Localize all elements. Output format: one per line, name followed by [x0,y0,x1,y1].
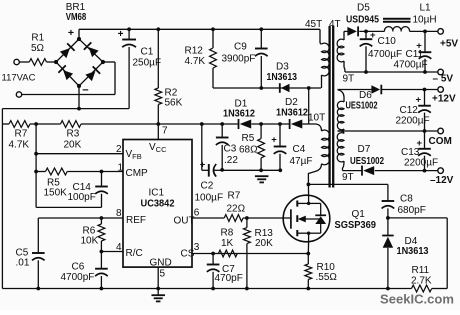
svg-text:1N3613: 1N3613 [267,72,298,83]
label C11 plus [416,41,422,52]
label 9T a [343,73,355,84]
node Q1 source stub [307,232,310,235]
label D2 [285,97,298,108]
svg-text:R/C: R/C [126,248,143,259]
label C12 value [396,116,430,127]
svg-text:117VAC: 117VAC [2,73,36,84]
label C14 value [68,192,96,203]
winding 9T b [337,131,344,171]
label D1 [235,98,248,109]
svg-text:1N3612: 1N3612 [223,109,255,120]
node bottom C6 [100,287,104,291]
label pin6 [194,208,200,219]
label C3 [224,143,237,154]
label IC1 [149,187,165,198]
label pin8 [116,208,122,219]
svg-text:100pF: 100pF [68,192,96,203]
svg-text:56K: 56K [165,98,183,109]
svg-text:1K: 1K [221,238,234,249]
terminal +5V [438,29,444,35]
node drain [307,183,311,187]
wire bridge top to rail [78,29,80,39]
svg-text:C12: C12 [400,105,419,116]
bridge diode top-left [60,43,75,58]
resistor R6 [98,218,105,252]
label R6 [83,225,96,236]
svg-text:2200µF: 2200µF [396,116,430,127]
svg-text:.55Ω: .55Ω [316,272,338,283]
label D4 part [397,246,429,257]
label 45T [305,19,322,30]
svg-text:4.7K: 4.7K [185,56,206,67]
wire comp vertical [35,124,37,207]
terminal -12V [438,168,444,174]
node CS C7 [211,252,215,256]
wire 117VAC return [22,62,115,95]
label CS [181,249,195,260]
svg-text:10T: 10T [308,113,325,124]
wire comp bottom [36,206,101,208]
wire -5V rail [345,71,437,73]
label D6 [359,90,372,101]
label R8 value [221,238,234,249]
svg-text:5Ω: 5Ω [31,43,45,54]
resistor R10 [305,254,312,289]
svg-text:L1: L1 [420,2,432,13]
resistor R12 [210,29,217,88]
svg-text:D3: D3 [276,62,289,73]
svg-text:R11: R11 [412,265,430,276]
diode D3 [280,83,290,93]
node C1 top [127,27,131,31]
label RC [126,248,143,259]
node C9 bottom [259,86,263,90]
label R2 value [165,98,183,109]
node C9 top [259,27,263,31]
capacitor C4 [274,124,287,170]
svg-text:SeekIC.com: SeekIC.com [380,291,454,306]
wire pin2 line [36,153,123,155]
svg-text:470pF: 470pF [215,273,243,284]
node bottom R13 [245,287,249,291]
capacitor C5 [32,253,45,289]
label 9T b [342,172,354,183]
wire top DC rail [79,28,320,30]
node pin2 tap [34,152,38,156]
svg-text:9T: 9T [342,172,354,183]
label C13 [401,147,420,158]
label 4T [329,19,341,30]
wire rail A segment 3 [251,123,289,125]
node rail A R2 [156,122,160,126]
node gnd2 R5 [259,168,263,172]
svg-text:20K: 20K [255,238,273,249]
node C3 bottom [220,168,224,172]
label R13 value [255,238,273,249]
diode D6 [371,85,381,95]
svg-text:.01: .01 [16,258,30,269]
label R13 [255,228,274,239]
wire R1 to bridge [47,61,57,63]
label C10 [378,36,397,47]
label C9 value [222,54,256,65]
label C12 plus [416,95,422,106]
capacitor C10 [360,31,373,72]
resistor R11 [412,285,432,292]
svg-text:R5: R5 [242,133,255,144]
node bottom gnd [156,287,160,291]
label C13 value [404,158,438,169]
wire CS line [192,253,309,255]
resistor R13 [244,218,251,289]
svg-text:150K: 150K [44,188,68,199]
capacitor C6 [95,252,108,289]
svg-text:Q1: Q1 [352,209,366,220]
node snubber [386,216,390,220]
node COM C12 [423,129,427,133]
terminal COM [438,128,444,134]
node bridge neutral [77,107,81,111]
label C5 [16,247,29,258]
label 117VAC [2,73,36,84]
label Q1 part [335,220,377,231]
wire 117VAC live lead [19,61,29,63]
label R7 gate value [227,203,246,214]
label pin5 [160,268,166,279]
svg-text:8: 8 [116,208,122,219]
bridge diode bottom-left [58,65,73,80]
label +12V [432,94,456,105]
label C13 plus [417,138,423,149]
label R12 value [185,56,206,67]
svg-text:OUT: OUT [174,216,195,227]
svg-text:3900pF: 3900pF [222,54,256,65]
node C13 bottom [423,169,427,173]
capacitor C12 [418,90,431,132]
wire bottom rail [2,288,447,290]
label pin3 [194,242,200,253]
svg-text:22Ω: 22Ω [227,203,246,214]
label bridge minus [82,85,88,97]
svg-text:9T: 9T [343,73,355,84]
label D5 [357,3,370,14]
capacitor C14 [95,172,108,208]
wire C5 drop [37,218,39,253]
terminal -5V [438,69,444,75]
node C11 top [423,30,427,34]
resistor R2 [155,29,162,124]
wire bridge bottom lead [78,86,80,109]
svg-text:20K: 20K [64,139,82,150]
label D1 part [223,109,255,120]
node bridge top [77,37,81,41]
svg-text:+: + [200,160,206,171]
label C4 value [290,156,313,167]
label R10 value [316,272,338,283]
wire pin1 line [36,171,123,173]
label Q1 [352,209,366,220]
node C10 top [364,30,368,34]
wire neutral rail [2,108,129,110]
label pin7 [162,126,168,137]
node gnd2 C4 [278,168,282,172]
svg-text:C2: C2 [201,180,214,191]
label C4 [293,144,306,155]
label R2 [165,87,178,98]
svg-text:680pF: 680pF [398,205,426,216]
svg-text:UES1002: UES1002 [350,156,384,167]
svg-text:68Ω: 68Ω [239,145,258,156]
terminal 117VAC top [14,59,19,64]
node bridge bottom [77,84,81,88]
svg-text:R13: R13 [255,228,274,239]
capacitor C7 [207,254,220,289]
svg-text:C9: C9 [234,41,247,52]
label C2 [201,180,214,191]
label R7 gate [228,190,241,201]
svg-text:UES1002: UES1002 [346,101,378,112]
wire OUT line [192,217,292,219]
svg-text:C1: C1 [141,46,154,57]
svg-text:GND: GND [150,257,172,268]
node source CS [306,252,310,256]
label pin1 [118,162,124,173]
svg-text:REF: REF [126,215,146,226]
svg-text:+: + [370,30,376,41]
svg-text:IC1: IC1 [149,187,165,198]
node pin1 tap [34,170,38,174]
label VM68 [66,12,87,23]
svg-text:R1: R1 [31,32,44,43]
svg-text:.22: .22 [224,155,238,166]
svg-text:+: + [68,27,74,39]
label -5V [433,73,454,84]
svg-text:5: 5 [160,268,166,279]
label C7 [222,264,235,275]
label R8 [221,228,234,239]
inductor L1 [383,19,411,32]
wire snubber loop [388,218,447,289]
winding 45T [320,29,329,88]
capacitor C11 [419,31,432,72]
label BR1 [66,2,86,13]
svg-text:45T: 45T [305,19,322,30]
label UC3842 [141,198,175,209]
label REF [126,215,146,226]
wire REF line [38,217,123,219]
svg-text:−: − [82,85,88,97]
svg-text:2200µF: 2200µF [404,158,438,169]
node bottom C7 [211,287,215,291]
label D5 part [346,14,379,25]
svg-text:6: 6 [194,208,200,219]
label OUT [174,216,195,227]
label Vcc [149,142,167,154]
label C8 [400,193,413,204]
node bottom R10 [306,287,310,291]
node Q1 drain stub [307,202,310,205]
svg-text:+: + [118,29,124,40]
label C12 [400,105,419,116]
svg-text:4: 4 [116,242,122,253]
wire 12V rail [338,89,438,91]
wire RC line [101,251,123,253]
wire VCC aux rail [213,87,321,89]
capacitor C1 [122,29,136,108]
node R12 top [211,27,215,31]
svg-text:USD945: USD945 [346,14,379,25]
label COM [429,136,452,147]
label C7 value [215,273,243,284]
svg-text:C13: C13 [401,147,420,158]
diode D4 [382,218,394,289]
label C9 [234,41,247,52]
ground main [151,289,165,302]
svg-text:+5V: +5V [440,39,458,50]
wire snubber drop [387,184,389,200]
wire decouple rail [202,124,222,170]
node C12 top [423,88,427,92]
svg-text:C8: C8 [400,193,413,204]
label pin2 [116,144,122,155]
svg-text:4.7K: 4.7K [9,139,30,150]
node C14 top [100,170,104,174]
watermark SeekIC.com [380,291,454,306]
wire drain rail [308,183,388,185]
label D6 part [346,101,378,112]
label C4 plus [271,135,277,146]
resistor R7 [2,121,30,151]
node R2 top [156,27,160,31]
wire rail A segment 4 [302,123,308,125]
wire rail A segment 1 [30,123,61,125]
svg-text:VM68: VM68 [66,12,87,23]
node C10 bottom [364,70,368,74]
label R10 [317,262,336,273]
node bottom C5 [36,287,40,291]
Q1 substrate arrow [298,216,321,223]
transistor Q1 circle [283,195,330,242]
svg-text:4700pF: 4700pF [61,272,95,283]
svg-text:4700µF: 4700µF [394,59,428,70]
label R11 value [411,275,432,286]
wire 5V rail [344,30,437,32]
label +5V [440,39,458,50]
label R5 68 value [239,145,258,156]
capacitor C2 [209,164,216,177]
winding 10T [308,124,329,184]
Q1 channel segments [296,201,298,237]
label CMP [126,168,149,179]
label L1 value [413,14,437,25]
winding 4T [337,31,345,72]
label R12 [185,45,204,56]
svg-text:D5: D5 [357,3,370,14]
wire drain stub [307,184,309,195]
label pin4 [116,242,122,253]
capacitor C13 [418,131,431,171]
node bridge left [54,60,58,64]
label C1 value [133,58,162,69]
label D7 [358,144,371,155]
resistor R1 [29,32,46,65]
svg-text:250µF: 250µF [133,58,162,69]
winding 9T a [337,90,344,132]
Q1 body diode [315,215,326,224]
label C6 value [61,272,95,283]
svg-text:10K: 10K [81,236,99,247]
svg-text:3: 3 [194,242,200,253]
label R6 value [81,236,99,247]
terminal 117VAC bottom [16,92,21,97]
capacitor C8 [382,201,395,218]
label D2 part [276,107,308,118]
svg-text:D7: D7 [358,144,371,155]
label D7 part [350,156,384,167]
IC U1 UC3842 box [123,140,192,268]
svg-text:10µH: 10µH [413,14,437,25]
diode D2 [290,119,303,129]
node bottom D4 [386,287,390,291]
svg-text:7: 7 [162,126,168,137]
svg-text:R3: R3 [67,129,80,140]
terminal +12V [438,87,444,93]
label C6 [72,262,85,273]
svg-text:+: + [271,135,277,146]
wire COM rail [338,130,438,132]
diode D7 [362,166,374,176]
svg-text:R12: R12 [185,45,204,56]
svg-text:R7: R7 [228,190,241,201]
node REF R6 [100,216,104,220]
node X top [307,86,311,90]
svg-text:C10: C10 [378,36,397,47]
svg-text:4700µF: 4700µF [368,49,402,60]
Q1 gate bar [290,209,292,228]
svg-text:SGSP369: SGSP369 [335,220,377,231]
resistor R5 68 [258,124,265,170]
label C10 value [368,49,402,60]
svg-text:2: 2 [116,144,122,155]
wire source stub [307,242,309,254]
label -12V [430,175,454,186]
svg-text:COM: COM [429,136,452,147]
node rail A C2 [200,122,204,126]
svg-text:+12V: +12V [432,94,456,105]
svg-text:2.7K: 2.7K [411,275,432,286]
label C11 [406,49,424,60]
label C10 plus [370,30,376,41]
label 10T [308,113,325,124]
svg-text:UC3842: UC3842 [141,198,175,209]
wire node X vertical [308,88,310,124]
label C1 plus [118,29,124,40]
label D4 [405,236,418,247]
wire -12V rail [343,170,438,172]
label R11 [412,265,430,276]
svg-text:4T: 4T [329,19,341,30]
label C1 [141,46,154,57]
svg-text:CMP: CMP [126,168,149,179]
label Vfb [126,149,142,161]
wire left border [1,109,3,289]
svg-text:– 5V: – 5V [433,73,454,84]
capacitor C3 [216,124,229,170]
node rail A R5 [259,122,263,126]
node rail A C4 [278,122,282,126]
bridge BR1 frame [56,39,103,86]
svg-text:1N3612: 1N3612 [276,107,308,118]
